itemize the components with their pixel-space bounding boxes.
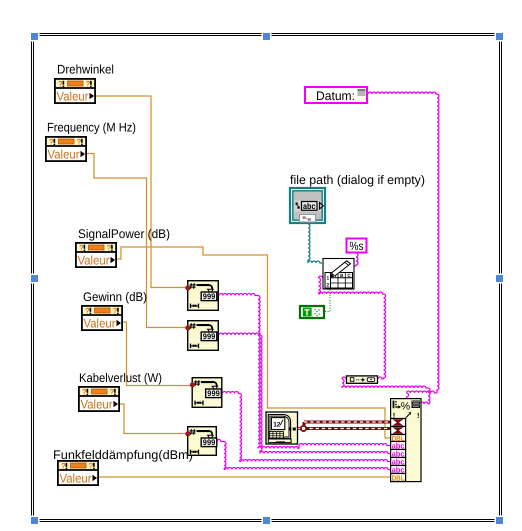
svg-text:?: ? (107, 244, 112, 253)
svg-text:999: 999 (203, 292, 216, 301)
svg-text:?: ? (77, 138, 82, 147)
svg-text:%s: %s (350, 239, 364, 253)
svg-text:Datum:: Datum: (316, 89, 355, 103)
svg-text:?: ? (85, 307, 90, 316)
svg-text:?: ? (86, 80, 91, 89)
svg-text:Valeur: Valeur (84, 317, 116, 331)
svg-text:999: 999 (203, 332, 216, 341)
svg-text:?: ? (113, 307, 118, 316)
svg-text:Drehwinkel: Drehwinkel (57, 63, 114, 77)
svg-text:12: 12 (273, 422, 281, 429)
svg-text:?: ? (61, 462, 66, 471)
svg-text:Valeur: Valeur (81, 398, 113, 412)
svg-text:%: % (401, 401, 410, 413)
svg-text:999: 999 (203, 438, 216, 447)
svg-text:DBL: DBL (392, 473, 405, 482)
svg-text:!: ! (417, 411, 420, 420)
svg-text:?: ? (89, 462, 94, 471)
svg-text:999: 999 (207, 389, 220, 398)
svg-text:Kabelverlust (W): Kabelverlust (W) (79, 371, 162, 385)
svg-text:Valeur: Valeur (57, 90, 89, 104)
svg-text:file path (dialog if empty): file path (dialog if empty) (290, 173, 425, 187)
svg-text:?: ? (82, 388, 87, 397)
svg-text:?: ? (58, 80, 63, 89)
svg-text:Valeur: Valeur (60, 472, 92, 486)
svg-text:Gewinn (dB): Gewinn (dB) (83, 290, 147, 304)
svg-text:T: T (304, 307, 310, 317)
svg-text:abc: abc (303, 201, 316, 211)
svg-text:SignalPower (dB): SignalPower (dB) (78, 227, 170, 241)
svg-text:?: ? (79, 244, 84, 253)
svg-text:Valeur: Valeur (78, 254, 110, 268)
svg-text:2: 2 (327, 282, 330, 288)
svg-text:Valeur: Valeur (48, 148, 80, 162)
svg-text:?: ? (49, 138, 54, 147)
svg-text:Frequency (M Hz): Frequency (M Hz) (47, 121, 136, 135)
svg-text:Funkfelddämpfung(dBm): Funkfelddämpfung(dBm) (53, 448, 193, 462)
svg-text:1: 1 (327, 276, 330, 282)
svg-text:?: ? (110, 388, 115, 397)
